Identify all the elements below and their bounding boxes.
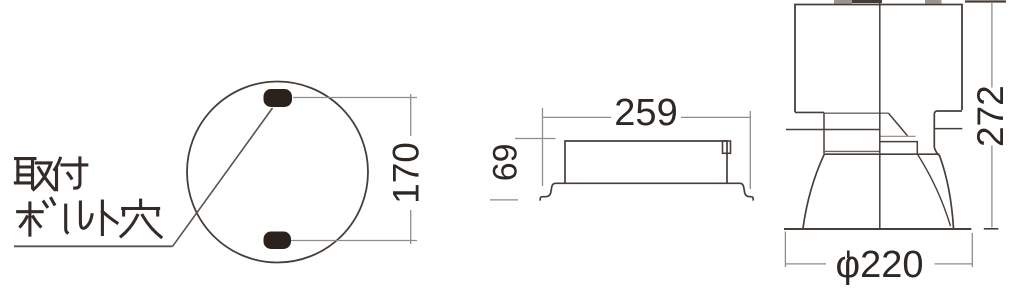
housing bottom edge left (795, 111, 824, 113)
left mounting arm (786, 129, 880, 131)
取 (16, 157, 35, 160)
frame box (565, 141, 727, 183)
272 bottom tick (984, 228, 999, 230)
phi220 left extension (784, 232, 786, 268)
付 (55, 158, 61, 169)
ボ (18, 210, 42, 213)
extension line top bolt (293, 97, 417, 99)
housing bottom edge right + bracket corner (934, 111, 962, 148)
socket band bottom (880, 142, 918, 154)
svg-text:272: 272 (970, 85, 1011, 147)
extension line bottom bolt (291, 240, 417, 242)
label 取付 (hand-drawn) (15, 158, 86, 190)
diagonal under housing (889, 113, 908, 136)
reflector inner right edge (918, 154, 951, 226)
穴 (139, 200, 142, 207)
69 top extension line (515, 138, 556, 140)
label ボルト穴 (hand-drawn) (18, 199, 161, 238)
right mounting arm (934, 128, 962, 130)
leader underline (14, 245, 173, 247)
mounting plate circle (187, 82, 368, 263)
svg-text:φ220: φ220 (835, 244, 923, 286)
top clipped tabs (834, 0, 852, 4)
center line (879, 0, 881, 229)
ト (101, 201, 104, 234)
272 top tick (965, 0, 1006, 2)
tab on box top right (723, 141, 731, 153)
reflector outer left edge (803, 154, 824, 228)
phi220 right extension (971, 233, 973, 267)
base plate with feet (540, 183, 753, 200)
leader line (173, 108, 273, 246)
cone top line (824, 153, 939, 155)
socket band top (right of center) (880, 135, 916, 137)
bolt hole bottom (264, 232, 292, 250)
housing bottom edge middle (824, 112, 889, 114)
phi ascender stroke (847, 251, 850, 259)
bolt hole top (264, 89, 293, 107)
svg-text:69: 69 (487, 143, 525, 181)
dimension line 170 (broken by text) (410, 94, 412, 136)
259 dimension line (543, 116, 612, 118)
svg-text:259: 259 (614, 92, 677, 134)
259 right extension line (749, 111, 751, 189)
lamp plate line left (824, 150, 880, 152)
69 bottom extension line (490, 199, 518, 201)
trim rim (784, 228, 971, 230)
inner vertical left of center (823, 113, 825, 154)
272 dimension line (991, 2, 993, 88)
svg-text:170: 170 (386, 142, 427, 204)
phi220 dimension line (785, 263, 826, 265)
ル (66, 205, 68, 232)
259 left extension line (542, 108, 544, 186)
housing box (795, 5, 962, 113)
reflector outer right edge (934, 148, 953, 229)
